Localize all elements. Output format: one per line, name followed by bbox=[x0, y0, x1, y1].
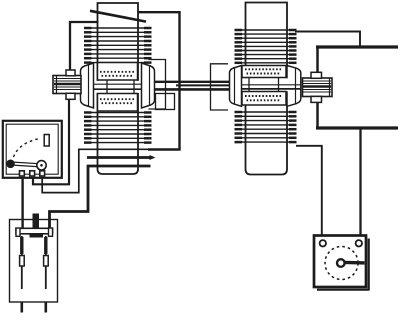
motor M1 bearing bracket (thin frame right of armature) bbox=[149, 60, 166, 110]
wire: G1 field bottom lead to field rheostat left terminal bbox=[296, 146, 322, 240]
knife switch right blade with fuse clips bbox=[44, 236, 49, 313]
wire: M1 field top lead crossing core (diagonal) bbox=[90, 11, 146, 22]
wire: starting box terminal 3 to field (thin staircase) bbox=[42, 149, 150, 192]
generator G1 upper field coil fins bbox=[235, 30, 297, 63]
knife switch crossbar bbox=[16, 228, 53, 236]
generator G1 bearing bracket (thin frame left of armature) bbox=[211, 64, 229, 110]
motor M1 top pole face with winding dots bbox=[98, 63, 138, 81]
motor M1 armature centre band (covers core) bbox=[94, 80, 142, 94]
field rheostat handle bbox=[345, 261, 365, 265]
motor M1 armature right end bell bbox=[142, 63, 155, 108]
shaft coupling motor to generator bbox=[155, 82, 232, 90]
generator G1 armature right end bell bbox=[287, 66, 301, 107]
generator G1 commutator bbox=[303, 78, 333, 97]
wire: M1 bottom brush down to starting box terminal 2 bbox=[33, 99, 69, 184]
field rheostat contact ring (dashed) bbox=[325, 247, 358, 280]
motor M1 field core bbox=[98, 3, 139, 174]
generator G1 lower field coil fins bbox=[235, 112, 297, 142]
generator G1 field core bbox=[246, 3, 288, 175]
wire: M1 field bottom lead with arrow end bbox=[87, 155, 156, 160]
generator G1 armature centre band (covers core) bbox=[242, 78, 301, 92]
motor M1 bottom brush holder bbox=[66, 93, 75, 99]
wire: M1 field loop - top run, right side down, back across core bbox=[138, 12, 180, 149]
starting rheostat terminal 2 bbox=[30, 171, 35, 176]
starting rheostat terminal 3 bbox=[40, 171, 45, 176]
knife switch left blade with fuse clips bbox=[20, 236, 25, 313]
field rheostat knob bbox=[337, 259, 345, 267]
wire: M1 armature circuit to knife switch bbox=[50, 166, 151, 228]
starting rheostat lever arm bbox=[11, 162, 39, 167]
starting rheostat travel arc (dashed) bbox=[14, 138, 42, 157]
motor M1 lower field coil fins bbox=[84, 113, 152, 143]
motor M1 top brush holder bbox=[66, 70, 75, 76]
starting rheostat box outer bbox=[3, 121, 62, 178]
motor M1 bottom pole face with winding dots bbox=[98, 94, 138, 112]
wire: G1 bottom brush to negative main bbox=[316, 102, 319, 128]
starting rheostat pivot (filled) bbox=[6, 160, 15, 169]
wire: G1 top brush to positive main bbox=[316, 46, 319, 72]
wire: M1 top brush to supply (up and right) bbox=[70, 22, 99, 70]
motor M1 armature left end bell bbox=[81, 63, 94, 108]
motor M1 bearing pedestal rectangle bbox=[156, 94, 175, 110]
generator G1 bottom pole face with winding dots bbox=[242, 92, 286, 106]
wire: negative main down to field rheostat right terminal bbox=[359, 128, 361, 240]
generator G1 armature left end bell bbox=[230, 66, 242, 107]
generator G1 top pole face with winding dots bbox=[242, 66, 286, 78]
negative main bus bbox=[316, 126, 398, 129]
field rheostat left terminal bbox=[320, 240, 326, 246]
motor M1 upper field coil fins bbox=[84, 28, 152, 63]
generator G1 bottom brush holder bbox=[311, 96, 322, 102]
generator G1 top brush holder bbox=[311, 72, 322, 78]
motor M1 commutator bbox=[53, 76, 81, 94]
wire: starting box terminal 1 down to knife switch bbox=[21, 177, 23, 228]
starting rheostat lever knob bbox=[37, 161, 46, 170]
knife switch hinge jaw bbox=[30, 234, 44, 238]
starting rheostat terminal 1 bbox=[20, 171, 25, 176]
knife switch handle bbox=[33, 214, 40, 230]
starting rheostat box inner frame bbox=[6, 124, 58, 174]
field rheostat right terminal bbox=[356, 240, 362, 246]
wire: G1 field top lead to main bbox=[295, 32, 360, 46]
starting rheostat contact segment bbox=[44, 135, 49, 147]
field rheostat box bbox=[314, 236, 370, 291]
knife switch base board bbox=[10, 220, 58, 303]
positive main bus bbox=[316, 45, 398, 48]
